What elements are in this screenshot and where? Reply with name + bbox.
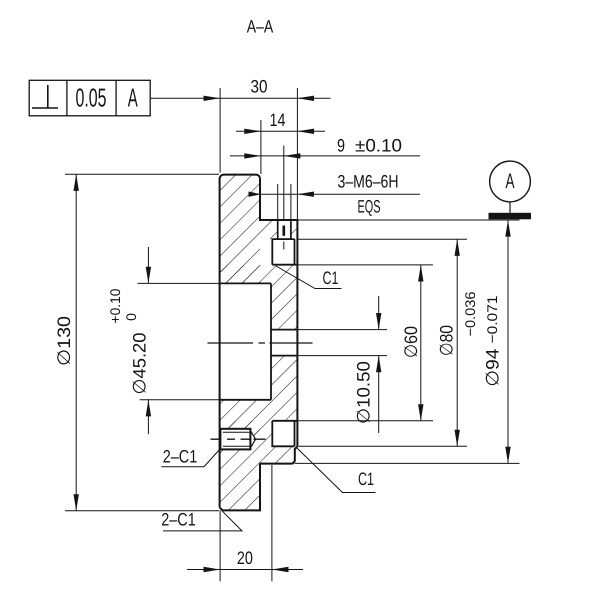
hatch region plate lower (220, 421, 260, 511)
svg-text:0.05: 0.05 (76, 83, 107, 113)
phi45.20 bottom extension (140, 399, 219, 401)
svg-text:∅94: ∅94 (483, 349, 503, 387)
dimension 30 line with frame leader (150, 97, 330, 99)
note left arrow (249, 192, 261, 197)
svg-text:A: A (506, 170, 515, 193)
datum stem (509, 202, 511, 213)
svg-text:−0.071: −0.071 (484, 295, 500, 343)
phi45.20 lower arrow (146, 400, 151, 417)
chamfer note C1 lower leader (296, 448, 375, 493)
M6 hole centerline dash in groove (283, 242, 285, 250)
hub bottom surface phi94 with corner (260, 446, 298, 463)
svg-text:30: 30 (251, 76, 268, 96)
small hole phi10.5 top edge (271, 329, 297, 331)
datum circle (490, 161, 531, 202)
phi60 lower surface (272, 420, 297, 422)
M6 radial hole left wall (277, 220, 279, 239)
phi60 top extension (298, 264, 433, 266)
hatch region left of lower groove (220, 421, 272, 447)
phi80 bottom arrow (455, 430, 460, 447)
hatch region hub wall top right of M6 hole (291, 220, 297, 239)
phi60 upper surface (272, 264, 297, 266)
set screw centerline dashes (211, 438, 266, 440)
svg-text:EQS: EQS (358, 197, 381, 217)
hatch region band above bore full width (220, 265, 297, 284)
extension line plate right face for 14 and 9 dims (260, 120, 262, 174)
phi130 bottom arrow (74, 494, 79, 511)
dimension 30 left arrow (204, 96, 221, 101)
main centerline dashes (208, 342, 313, 344)
svg-text:14: 14 (270, 110, 286, 130)
tolerance frame divider 1 (66, 80, 68, 116)
svg-text:∅130: ∅130 (54, 316, 74, 366)
svg-text:2–C1: 2–C1 (163, 447, 198, 467)
M6 radial hole right wall (290, 220, 292, 239)
set screw cavity white (220, 429, 255, 450)
phi45.20 dimension line lower (147, 400, 149, 434)
bore top edge (220, 282, 271, 284)
extension line hub face for 30 14 dims (296, 88, 298, 219)
M6 radial hole white cavity (279, 221, 291, 239)
dimension 20 left arrow (204, 567, 221, 572)
set screw cone tip (250, 431, 255, 448)
dimension 9 left arrow (244, 153, 261, 158)
hatch region right of bore below small hole (271, 356, 297, 400)
dimension 9 right arrow (284, 153, 301, 158)
phi10.50 hole bottom extension (298, 355, 388, 357)
svg-text:2–C1: 2–C1 (161, 510, 196, 530)
svg-text:±0.10: ±0.10 (355, 135, 402, 155)
hub right face (296, 219, 298, 446)
flange plate outline bottom (220, 464, 260, 511)
chamfer note C1 upper leader (276, 266, 342, 289)
svg-text:∅45.20: ∅45.20 (130, 333, 150, 395)
svg-text:∅60: ∅60 (401, 326, 421, 358)
svg-text:A: A (128, 83, 138, 113)
dimension 14 right arrow (297, 129, 314, 134)
phi80 bottom extension (298, 445, 467, 447)
dimension 14 left arrow (244, 129, 261, 134)
chamfer note 2-C1 upper leader (161, 449, 220, 467)
phi80 top extension (298, 238, 467, 240)
svg-text:3–M6–6H: 3–M6–6H (338, 171, 399, 191)
dimension 20 extension left (219, 510, 221, 581)
phi80 dimension line (456, 239, 458, 446)
lower groove outline (272, 421, 294, 447)
svg-text:20: 20 (237, 548, 253, 568)
svg-text:∅10.50: ∅10.50 (354, 361, 374, 424)
phi10.50 hole top extension (298, 329, 388, 331)
perpendicularity symbol (32, 85, 58, 108)
svg-text:C1: C1 (358, 469, 374, 489)
phi10.50 upper arrow (376, 313, 381, 330)
phi94 dimension line (507, 220, 509, 463)
hatch region bottom ring wall (260, 446, 295, 463)
phi130 dimension line (75, 174, 77, 511)
extension line M6 hole centerline (283, 146, 285, 221)
dimension 30 right arrow (297, 96, 314, 101)
phi130 bottom extension (65, 510, 219, 512)
phi10.50 lower arrow (376, 356, 381, 373)
M6 hole centerline bar (282, 226, 285, 236)
phi130 top extension (65, 173, 219, 175)
phi45.20 top extension (138, 282, 220, 284)
dimension 14 line (236, 130, 325, 132)
phi45.20 upper arrow (146, 267, 151, 284)
extension line left face for 30 dim (219, 88, 221, 173)
svg-text:0: 0 (123, 313, 139, 321)
hatch region hub wall top left of M6 hole (260, 220, 278, 239)
set screw body outline (220, 429, 250, 450)
svg-text:9: 9 (337, 135, 345, 155)
tolerance frame box (29, 80, 150, 116)
phi10.50 dimension line lower (378, 356, 380, 433)
bore floor (270, 283, 272, 399)
flange plate outline left top right (220, 175, 260, 508)
phi94 top arrow (505, 220, 510, 237)
svg-text:A–A: A–A (247, 16, 274, 36)
hatch region plate upper (220, 175, 260, 283)
chamfer note 2-C1 lower leader (163, 511, 242, 531)
dimension 9 line (230, 155, 420, 157)
tolerance frame divider 2 (115, 80, 117, 116)
upper groove outline (272, 239, 294, 265)
phi60 top arrow (418, 265, 423, 282)
hatch region band below bore full width (220, 400, 297, 421)
dimension 20 extension right (271, 465, 273, 581)
dimension 20 line (187, 569, 303, 571)
datum target bar (489, 213, 532, 220)
svg-text:∅80: ∅80 (437, 325, 457, 356)
phi130 top arrow (74, 174, 79, 191)
phi60 bottom arrow (418, 404, 423, 421)
note right arrow (297, 192, 314, 197)
extension line M6 hole left edge (277, 184, 279, 220)
svg-text:+0.10: +0.10 (107, 288, 123, 323)
hub top surface phi94 (259, 219, 297, 221)
phi94 top extension (298, 219, 520, 221)
phi10.50 dimension line upper (378, 296, 380, 330)
bore bottom edge (220, 399, 271, 401)
small hole phi10.5 bottom edge (271, 355, 297, 357)
phi45.20 dimension line upper (147, 247, 149, 283)
phi94 bottom arrow (505, 447, 510, 464)
svg-text:−0.036: −0.036 (462, 291, 478, 336)
svg-text:C1: C1 (323, 268, 339, 288)
phi80 top arrow (455, 239, 460, 256)
extension line M6 hole right edge (290, 184, 292, 220)
set screw thread inner lines (223, 431, 251, 433)
dimension 20 right arrow (272, 567, 289, 572)
hatch region right of bore above small hole (271, 283, 297, 329)
phi60 dimension line (420, 265, 422, 421)
phi60 bottom extension (298, 420, 433, 422)
note 3-M6-6H leader line (249, 193, 420, 195)
phi94 bottom extension (295, 462, 520, 464)
